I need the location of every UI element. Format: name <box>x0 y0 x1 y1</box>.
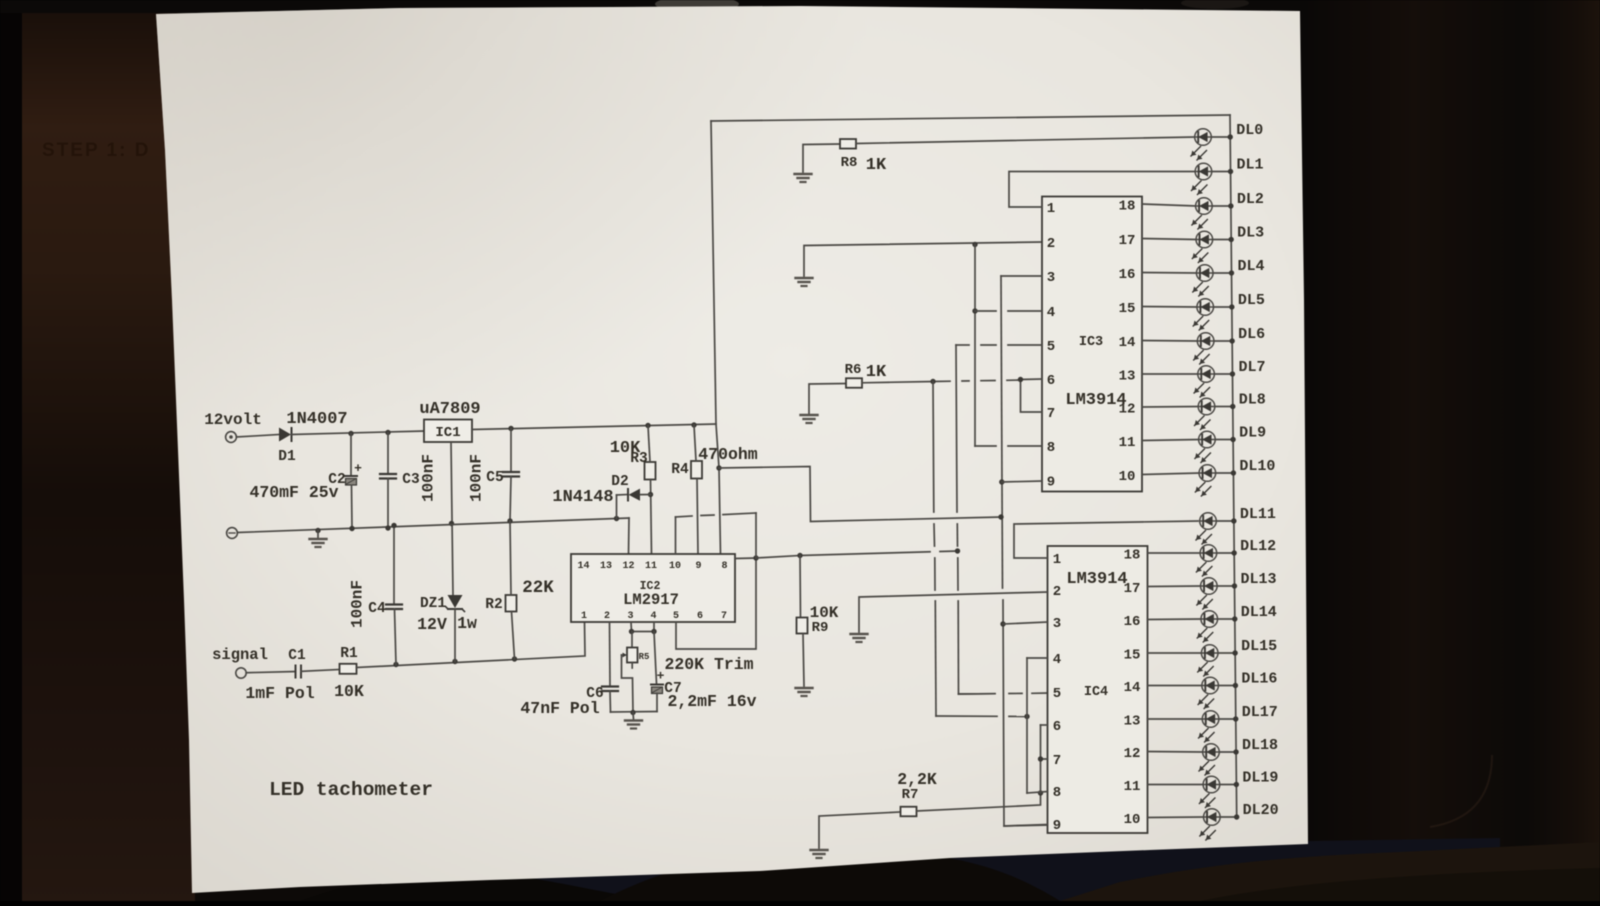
wire R6 to IC3 pin 6 (with hops) <box>862 380 1021 383</box>
node R6 / V1 <box>930 379 935 384</box>
svg-text:LED tachometer: LED tachometer <box>269 779 433 801</box>
capacitor C1 1mF <box>296 666 302 678</box>
wire IC1 ground lead / DZ1 riser <box>451 442 453 595</box>
wire R7 to IC4 pins 6/7/8 <box>917 793 1041 811</box>
wire IC2 pin 5 path <box>676 558 756 649</box>
wire DL6 to bus <box>1214 340 1232 342</box>
LED DL10 <box>1195 465 1215 496</box>
svg-text:DL13: DL13 <box>1240 571 1276 588</box>
wire R8 ground side <box>803 144 840 172</box>
node V1 / B <box>1024 714 1029 719</box>
node +9V / R4 <box>691 422 696 427</box>
svg-text:uA7809: uA7809 <box>419 400 480 419</box>
node bus DL12 <box>1231 550 1236 555</box>
ground (R7) <box>811 850 828 858</box>
node GND rail / IC1 <box>449 521 454 526</box>
wire ground stub (C6 rail) <box>632 713 635 720</box>
svg-text:2: 2 <box>1047 236 1055 252</box>
svg-text:DL18: DL18 <box>1242 737 1278 754</box>
wire IC4 pin 5 stub (hops) <box>959 693 996 695</box>
node bus DL5 <box>1229 304 1234 309</box>
svg-text:C3: C3 <box>402 472 419 488</box>
node V0 / pin4 <box>972 308 977 313</box>
capacitor C6 47nF <box>602 687 618 713</box>
wire R2 top lead <box>510 521 511 595</box>
svg-text:8: 8 <box>1053 785 1061 801</box>
svg-text:1w: 1w <box>457 614 477 633</box>
node B / pin8 row <box>1038 790 1043 795</box>
svg-text:12V: 12V <box>417 615 447 634</box>
svg-text:16: 16 <box>1124 614 1141 630</box>
svg-text:1K: 1K <box>866 156 887 175</box>
svg-text:DL16: DL16 <box>1241 671 1277 688</box>
terminal 0V input <box>227 528 238 539</box>
svg-text:13: 13 <box>1119 369 1136 385</box>
svg-text:DZ1: DZ1 <box>420 596 446 612</box>
wire R3 top lead <box>648 426 650 463</box>
svg-text:D2: D2 <box>611 474 628 490</box>
wire IC3 pin 8 stub (hop over A) <box>975 445 1042 447</box>
wire IC3 pin 18 to DL2 <box>1142 204 1196 206</box>
wire IC4 pin 13 to DL17 <box>1148 718 1203 720</box>
wire IC4 pin 16 to DL14 <box>1148 618 1201 621</box>
svg-text:7: 7 <box>721 611 727 622</box>
svg-text:12volt: 12volt <box>204 411 262 429</box>
wire IC3 pin 4 stub (hop over A) <box>975 310 1042 312</box>
svg-text:LM3914: LM3914 <box>1065 391 1126 410</box>
wire DL2 to bus <box>1212 205 1231 207</box>
LED DL5 <box>1193 299 1213 330</box>
wire link to R5 <box>631 632 633 648</box>
capacitor C3 100nF <box>380 433 396 529</box>
svg-text:11: 11 <box>1119 435 1136 451</box>
op-amp IC2 LM2917 <box>571 554 735 622</box>
svg-text:18: 18 <box>1119 199 1136 215</box>
svg-text:47nF Pol: 47nF Pol <box>520 699 599 718</box>
wire IC3 pin 2 to ground <box>804 242 1042 276</box>
wire R2 bottom lead <box>512 612 515 660</box>
svg-text:R2: R2 <box>485 597 502 613</box>
ground (IC4 pin2) <box>851 634 868 642</box>
capacitor C2 (electrolytic) <box>345 461 362 485</box>
svg-text:DL6: DL6 <box>1238 326 1265 343</box>
svg-text:220K Trim: 220K Trim <box>664 655 753 674</box>
LED DL18 <box>1199 744 1219 775</box>
wire IC3 pin 15 to DL5 <box>1142 306 1197 309</box>
svg-text:17: 17 <box>1124 581 1141 597</box>
node +12V / C2 <box>348 431 353 436</box>
wire signal line R1 to IC2 pin 1 <box>357 622 586 668</box>
svg-text:signal: signal <box>212 646 268 664</box>
capacitor C6 <box>602 687 618 692</box>
node bus DL10 <box>1231 470 1236 475</box>
pin numbers IC2 bottom (1-7) <box>581 611 727 622</box>
wire DL1 to bus <box>1212 171 1231 173</box>
node bus DL9 <box>1230 437 1235 442</box>
node bus DL19 <box>1234 782 1239 787</box>
LED DL19 <box>1199 776 1219 807</box>
wire IC4 pin 4 stub <box>1027 657 1048 659</box>
wire DL5 to bus <box>1214 306 1232 308</box>
capacitor C3 <box>380 474 396 479</box>
trimmer R5 220K <box>622 648 638 663</box>
wire V1 (R6 net to IC4 pins 4-8) with hops <box>933 382 1027 717</box>
diode D2 1N4148 <box>617 489 651 519</box>
node GND / C5 R2 <box>507 518 512 523</box>
LED DL20 <box>1200 809 1220 840</box>
wire DL12 to bus <box>1217 552 1234 554</box>
svg-text:DL15: DL15 <box>1241 638 1277 655</box>
node GND / C4 <box>391 523 396 528</box>
svg-text:4: 4 <box>1053 652 1061 668</box>
node GND / ground tap <box>315 528 320 533</box>
capacitor C2 470mF <box>345 434 362 529</box>
pin numbers IC4 left (1-9) <box>1053 552 1061 834</box>
node +9V / C5 <box>508 426 513 431</box>
wire IC3 pin 17 to DL3 <box>1142 239 1196 240</box>
resistor R7 2,2K <box>901 807 917 817</box>
svg-text:LM2917: LM2917 <box>623 591 679 609</box>
node bus DL4 <box>1229 270 1234 275</box>
resistor R6 1K <box>846 378 862 388</box>
svg-text:1: 1 <box>1047 201 1055 217</box>
wire IC3 pin 14 to DL6 <box>1142 340 1197 343</box>
node pin4 link <box>651 629 656 634</box>
node bus DL0 <box>1228 134 1233 139</box>
capacitor C7 (electrolytic) <box>651 669 665 694</box>
svg-text:8: 8 <box>1047 440 1055 456</box>
wire DL16 to bus <box>1218 685 1235 687</box>
svg-text:DL7: DL7 <box>1238 359 1265 376</box>
wire pin 10 to signal junction (with hops) <box>676 513 757 558</box>
wire IC4 pin 14 to DL16 <box>1148 685 1202 687</box>
node bus DL6 <box>1229 338 1234 343</box>
svg-text:1K: 1K <box>866 363 887 382</box>
wire IC3 pin 11 to DL9 <box>1142 440 1199 441</box>
node bus DL11 <box>1231 518 1236 523</box>
wire IC2 pin 10 riser <box>675 517 677 554</box>
wire R6 ground side <box>809 384 846 415</box>
svg-text:9: 9 <box>695 561 701 572</box>
svg-text:DL4: DL4 <box>1238 258 1265 275</box>
node R3 / D2 <box>648 492 653 497</box>
node bus DL2 <box>1228 203 1233 208</box>
LED DL12 <box>1196 545 1216 576</box>
svg-text:8: 8 <box>721 561 727 572</box>
svg-text:22K: 22K <box>522 578 554 598</box>
svg-text:100nF: 100nF <box>349 580 367 628</box>
svg-text:470ohm: 470ohm <box>698 445 758 464</box>
LED DL0 <box>1191 129 1211 160</box>
svg-text:5: 5 <box>1053 686 1061 702</box>
svg-text:DL10: DL10 <box>1239 458 1275 475</box>
svg-text:10K: 10K <box>334 682 364 701</box>
wire V+ branch to IC3/IC4 supply <box>719 467 1001 522</box>
LED DL16 <box>1198 677 1218 708</box>
wire DL4 to bus <box>1213 272 1231 274</box>
ground (R6) <box>801 415 818 423</box>
LED DL14 <box>1197 611 1217 642</box>
svg-text:15: 15 <box>1119 301 1136 317</box>
svg-text:3: 3 <box>1053 616 1061 632</box>
node ground link <box>630 710 635 715</box>
wire R5 bottom stub <box>631 663 633 669</box>
svg-text:DL8: DL8 <box>1239 392 1266 409</box>
zener diode DZ1 <box>446 595 465 662</box>
pin numbers IC2 top (14 13 12 11 10 9 8) <box>577 561 727 572</box>
svg-text:+: + <box>354 461 362 476</box>
wire signal to C1 <box>246 672 295 673</box>
wire DL10 to bus <box>1216 472 1234 474</box>
svg-text:2,2mF 16v: 2,2mF 16v <box>667 692 756 711</box>
wire IC3 pin 13 to DL7 <box>1142 373 1198 375</box>
pin numbers IC4 right (18-10) <box>1124 548 1141 829</box>
node bus DL13 <box>1232 583 1237 588</box>
wire V2 (signal to IC3/IC4 pin 5) with hops <box>956 345 1048 694</box>
node GND / D2 riser <box>614 516 619 521</box>
wire DL18 to bus <box>1219 751 1236 753</box>
node bus DL8 <box>1230 404 1235 409</box>
wire IC3 pin 1 to DL1 <box>1009 172 1195 208</box>
svg-text:12: 12 <box>1124 746 1141 762</box>
wire signal junction to R9 and V2 (with hop) <box>756 551 958 558</box>
LED DL7 <box>1194 366 1214 397</box>
svg-text:6: 6 <box>1047 373 1055 389</box>
node signal / R2 <box>512 656 517 661</box>
capacitor C7 2,2mF <box>651 669 665 712</box>
wire DL9 to bus <box>1215 439 1233 441</box>
ground (C6/C7 rail) <box>625 721 642 729</box>
wire IC3 pin 16 to DL4 <box>1142 272 1196 275</box>
svg-text:10: 10 <box>669 561 681 572</box>
svg-text:DL14: DL14 <box>1241 604 1277 621</box>
capacitor C4 <box>386 605 402 610</box>
svg-text:17: 17 <box>1119 233 1136 249</box>
wire V0 (IC3 pins 2-4-8) <box>974 245 976 447</box>
svg-text:100nF: 100nF <box>420 454 438 502</box>
svg-text:2: 2 <box>1053 584 1061 600</box>
wire GND rail <box>237 518 629 533</box>
wire IC2 pin 4 riser <box>653 622 655 632</box>
svg-text:13: 13 <box>1124 714 1141 730</box>
wire IC4 pins 6-7 link <box>1041 725 1048 793</box>
wire IC4 pin 8 stub <box>1027 792 1048 794</box>
svg-text:DL5: DL5 <box>1238 292 1265 309</box>
resistor R9 10K <box>797 556 808 687</box>
svg-text:1mF Pol: 1mF Pol <box>245 684 314 703</box>
wire IC3 pin 3 stub <box>1001 275 1042 277</box>
wire IC2 pin4 to C7 <box>654 632 657 684</box>
terminal +12V input <box>226 432 237 443</box>
node bus DL18 <box>1233 749 1238 754</box>
svg-text:DL1: DL1 <box>1237 157 1264 174</box>
svg-text:C5: C5 <box>486 470 503 486</box>
svg-text:11: 11 <box>645 561 657 572</box>
wire DL15 to bus <box>1218 652 1235 654</box>
svg-text:7: 7 <box>1053 753 1061 769</box>
LED DL3 <box>1192 231 1212 262</box>
node +12V / C3 <box>385 430 390 435</box>
svg-text:13: 13 <box>600 561 612 572</box>
wire V+ riser (LED bus feed / IC2 pin 8) <box>711 121 721 554</box>
svg-text:STEP 1: D: STEP 1: D <box>42 140 150 161</box>
node A / V+ branch <box>998 514 1003 519</box>
svg-text:DL2: DL2 <box>1237 191 1264 208</box>
svg-text:DL12: DL12 <box>1240 538 1276 555</box>
svg-text:470mF 25v: 470mF 25v <box>249 483 338 502</box>
wire R8 to DL0 <box>856 137 1195 144</box>
svg-text:14: 14 <box>1119 335 1136 351</box>
wire IC4 pin 17 to DL13 <box>1148 585 1201 588</box>
ground (R9) <box>796 688 813 696</box>
wire C6/C7 ground link <box>611 711 658 714</box>
svg-text:DL17: DL17 <box>1242 704 1278 721</box>
svg-text:6: 6 <box>1053 719 1061 735</box>
wire IC4 pin 11 to DL19 <box>1148 784 1204 786</box>
svg-text:9: 9 <box>1047 475 1055 491</box>
svg-text:C4: C4 <box>368 601 386 617</box>
wire DL11 to bus <box>1216 520 1234 522</box>
resistor R1 10K <box>340 664 357 674</box>
wire C1 to R1 <box>301 670 340 672</box>
wire DL7 to bus <box>1214 373 1232 375</box>
svg-text:11: 11 <box>1124 779 1141 795</box>
svg-text:IC4: IC4 <box>1084 685 1108 700</box>
node signal junction <box>753 555 758 560</box>
svg-text:5: 5 <box>673 611 679 622</box>
svg-text:6: 6 <box>697 611 703 622</box>
svg-text:12: 12 <box>1119 402 1136 418</box>
node A / IC4 pin3 <box>1000 621 1005 626</box>
capacitor C5 <box>503 472 519 477</box>
svg-text:1: 1 <box>1053 552 1061 568</box>
node IC3 pin2 / V0 <box>972 242 977 247</box>
svg-text:IC3: IC3 <box>1079 335 1103 350</box>
wire R4 top lead <box>694 425 696 461</box>
regulator IC1 uA7809 <box>424 420 472 443</box>
svg-text:18: 18 <box>1124 548 1141 564</box>
node signal / R9 <box>797 553 802 558</box>
node signal / C4 <box>393 662 398 667</box>
resistor R2 22K <box>506 595 517 612</box>
svg-text:10: 10 <box>1124 812 1141 828</box>
LED DL9 <box>1195 431 1215 462</box>
LED DL4 <box>1193 265 1213 296</box>
resistor R3 10K <box>645 462 656 480</box>
LED DL11 <box>1196 513 1216 544</box>
wire IC2 pin 3 riser <box>630 622 633 632</box>
wire D1 to IC1 (+12V rail) <box>292 431 425 435</box>
wire DL17 to bus <box>1219 718 1236 720</box>
LED DL8 <box>1195 398 1215 429</box>
svg-text:R6: R6 <box>845 362 862 378</box>
capacitor C4 100nF <box>386 526 402 665</box>
node pin3 link <box>629 629 634 634</box>
svg-text:2: 2 <box>604 611 610 622</box>
svg-text:3: 3 <box>1047 270 1055 286</box>
wire IC4 pin 15 to DL15 <box>1148 652 1202 654</box>
svg-text:R8: R8 <box>841 155 858 171</box>
svg-text:R1: R1 <box>340 646 358 662</box>
wire R7 ground side <box>819 812 900 848</box>
node bus DL17 <box>1233 716 1238 721</box>
wire IC3 pin 5 stub (hops) <box>956 344 1042 346</box>
wire IC3 pins 6-7 link <box>1021 379 1043 412</box>
node bus DL16 <box>1233 683 1238 688</box>
node IC4 pin 7 <box>1038 756 1043 761</box>
wire pin3-pin4 link <box>632 631 655 633</box>
svg-text:R7: R7 <box>902 787 919 803</box>
svg-text:1N4148: 1N4148 <box>552 488 613 507</box>
wire IC3 pin 10 to DL10 <box>1142 473 1199 475</box>
node bus DL3 <box>1228 237 1233 242</box>
wire bus B (IC4 pins 4-8) <box>1026 658 1028 793</box>
diode D1 <box>279 428 292 442</box>
svg-text:14: 14 <box>1124 680 1141 696</box>
svg-text:4: 4 <box>650 611 656 622</box>
svg-text:R9: R9 <box>812 620 829 636</box>
wire IC4 pin 9 stub <box>1004 825 1048 827</box>
wire ground stub <box>317 531 319 539</box>
node bus DL14 <box>1232 616 1237 621</box>
wire IC4 pin 1 to DL11 <box>1014 521 1198 558</box>
resistor R4 470ohm <box>691 461 702 479</box>
ground (R8) <box>795 174 812 182</box>
svg-text:12: 12 <box>622 561 634 572</box>
LED DL13 <box>1197 578 1217 609</box>
node bus DL7 <box>1230 371 1235 376</box>
svg-text:D1: D1 <box>278 449 296 465</box>
wire IC4 pin 12 to DL18 <box>1148 751 1203 754</box>
LED DL1 <box>1191 163 1211 194</box>
LED DL2 <box>1192 198 1212 229</box>
wire bus A (V+ IC3 pin3 to IC4 pins 3,9) with hop <box>1001 276 1048 826</box>
wire IC1 out rail (+9V) <box>472 424 716 430</box>
svg-text:C1: C1 <box>288 648 306 664</box>
terminal signal input <box>236 668 246 678</box>
wire IC3 pin 12 to DL8 <box>1142 406 1198 409</box>
svg-text:100nF: 100nF <box>468 454 486 502</box>
node signal / DZ1 <box>452 659 457 664</box>
svg-text:15: 15 <box>1124 648 1141 664</box>
node bus DL20 <box>1234 814 1239 819</box>
svg-text:DL0: DL0 <box>1236 122 1263 139</box>
resistor R8 1K <box>840 139 856 149</box>
wire R5 wiper to ground rail <box>622 655 634 713</box>
capacitor C5 100nF <box>503 429 519 522</box>
pin numbers IC3 right (18-10) <box>1119 199 1136 486</box>
svg-text:DL3: DL3 <box>1237 225 1264 242</box>
node GND / C2 <box>349 526 354 531</box>
svg-text:10: 10 <box>1119 469 1136 485</box>
node IC3 pin 6 <box>1018 377 1023 382</box>
wire DL0 to bus <box>1211 136 1230 138</box>
svg-text:R4: R4 <box>671 462 689 478</box>
svg-text:9: 9 <box>1053 818 1061 834</box>
node GND / C3 <box>385 525 390 530</box>
svg-text:R5: R5 <box>639 652 650 662</box>
node +9V / R3 <box>645 423 650 428</box>
node V+ branch <box>716 465 721 470</box>
resistor R9 10K <box>797 618 808 634</box>
wire R3 bottom to IC2 pin 11 <box>651 480 652 555</box>
svg-text:DL19: DL19 <box>1242 770 1278 787</box>
IC IC3 LM3914 <box>1042 197 1142 492</box>
svg-text:14: 14 <box>577 561 589 572</box>
ground (main rail) <box>310 539 327 547</box>
ground (IC3 pin2) <box>796 278 813 286</box>
wire GND rail to IC2 pin 12 <box>628 518 631 554</box>
